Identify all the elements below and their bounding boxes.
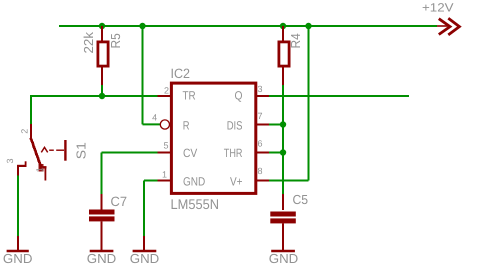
ground IC2 bbox=[130, 236, 160, 266]
wire R4-DIS-THR-C5 vertical bbox=[282, 84, 284, 194]
wire V+ vertical bbox=[308, 26, 310, 181]
wire Q output bbox=[269, 95, 409, 97]
wire TR net horizontal bbox=[30, 95, 158, 97]
supply +12V bbox=[422, 1, 459, 35]
pin 2 TR stub bbox=[158, 95, 172, 97]
pin 1 GND stub bbox=[158, 180, 172, 182]
svg-text:2: 2 bbox=[20, 129, 30, 134]
svg-text:Q: Q bbox=[235, 88, 243, 102]
svg-text:C7: C7 bbox=[111, 194, 128, 209]
wire reset net vertical bbox=[142, 26, 144, 124]
junction R5-TR bbox=[99, 93, 105, 99]
junction top R5 bbox=[99, 23, 105, 29]
switch S1 bbox=[17, 124, 65, 181]
svg-text:3: 3 bbox=[258, 84, 263, 94]
wire CV horizontal bbox=[102, 152, 159, 154]
svg-text:R5: R5 bbox=[108, 33, 123, 48]
svg-text:7: 7 bbox=[258, 111, 263, 121]
capacitor C7 bbox=[89, 194, 115, 250]
svg-text:GND: GND bbox=[130, 251, 160, 266]
ground S1 bbox=[3, 236, 33, 266]
svg-text:2: 2 bbox=[164, 86, 169, 96]
pin 5 CV stub bbox=[158, 152, 172, 154]
pin 4 R bubble bbox=[160, 120, 169, 129]
wire reset net horizontal to pin 4 bbox=[143, 123, 161, 125]
capacitor C5 bbox=[270, 194, 296, 250]
junction top V+ bbox=[305, 23, 311, 29]
pin 8 V+ stub bbox=[256, 180, 269, 182]
svg-text:5: 5 bbox=[163, 141, 168, 151]
resistor R4 bbox=[279, 26, 289, 85]
svg-text:CV: CV bbox=[183, 146, 197, 160]
svg-text:IC2: IC2 bbox=[171, 66, 191, 81]
svg-text:R: R bbox=[183, 119, 190, 133]
wire TR net vertical to switch bbox=[30, 95, 32, 124]
junction top R4 bbox=[280, 23, 286, 29]
wire IC GND vertical bbox=[143, 181, 145, 237]
wire R5 bottom bbox=[101, 84, 103, 96]
svg-text:3: 3 bbox=[5, 158, 15, 163]
svg-text:1: 1 bbox=[34, 167, 44, 172]
svg-text:C5: C5 bbox=[293, 192, 309, 207]
svg-text:6: 6 bbox=[258, 139, 263, 149]
wire CV vertical to C7 bbox=[101, 153, 103, 195]
svg-text:4: 4 bbox=[152, 113, 157, 123]
svg-text:22k: 22k bbox=[81, 31, 96, 53]
resistor R5 bbox=[98, 26, 108, 85]
svg-text:+12V: +12V bbox=[422, 1, 454, 15]
svg-text:GND: GND bbox=[269, 251, 299, 266]
svg-text:8: 8 bbox=[258, 166, 263, 176]
svg-text:THR: THR bbox=[224, 146, 243, 160]
junction THR bbox=[280, 149, 286, 155]
wire IC GND horizontal bbox=[144, 180, 158, 182]
pin 3 Q stub bbox=[256, 95, 269, 97]
svg-text:R4: R4 bbox=[288, 33, 303, 48]
svg-text:V+: V+ bbox=[230, 175, 243, 189]
junction DIS bbox=[280, 121, 286, 127]
ground C7 bbox=[87, 250, 117, 266]
svg-text:LM555N: LM555N bbox=[171, 196, 220, 212]
wire top +12V rail bbox=[59, 25, 437, 27]
svg-text:S1: S1 bbox=[74, 142, 89, 159]
svg-text:1: 1 bbox=[162, 170, 167, 180]
pin 6 THR stub bbox=[256, 152, 269, 154]
svg-text:DIS: DIS bbox=[227, 119, 243, 133]
wire DIS stub bbox=[269, 124, 283, 126]
svg-text:GND: GND bbox=[183, 175, 206, 189]
pin 7 DIS stub bbox=[256, 124, 269, 126]
svg-text:TR: TR bbox=[183, 88, 196, 102]
wire V+ horizontal bbox=[269, 180, 309, 182]
wire switch pin3 to GND bbox=[17, 175, 19, 236]
ground C5 bbox=[269, 250, 299, 266]
op-amp IC2 LM555N body bbox=[171, 83, 255, 193]
svg-text:GND: GND bbox=[87, 251, 117, 266]
junction top reset bbox=[139, 23, 145, 29]
svg-text:GND: GND bbox=[3, 251, 33, 266]
wire THR stub bbox=[269, 152, 283, 154]
